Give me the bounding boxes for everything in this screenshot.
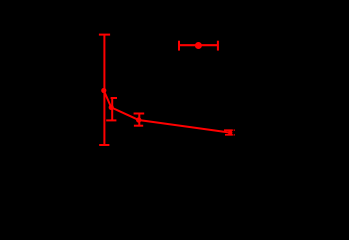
node P2 error bar vertical line (111, 98, 113, 120)
node P2 error bar bottom cap (106, 119, 116, 121)
node P3 error bar vertical line (138, 114, 140, 126)
node P3 error bar bottom cap (134, 125, 143, 127)
node L1 legend horizontal error bar line (179, 44, 218, 46)
node L1 legend left cap (178, 41, 180, 51)
node P2 marker (109, 105, 114, 110)
node P1 error bar top cap (99, 34, 110, 36)
node P4 error bar bottom cap (225, 134, 235, 136)
node P1 error bar bottom cap (99, 144, 109, 146)
node P1 error bar vertical line (103, 35, 105, 145)
node L1 legend right cap (217, 41, 219, 51)
node P4 error bar vertical line (228, 130, 230, 134)
node P2 error bar top cap (111, 97, 117, 99)
wire: black frame edge cutting P4 caps (232, 129, 235, 135)
node P3 error bar top cap (134, 113, 145, 115)
node P1 marker (101, 88, 106, 93)
node P4 error bar top cap (224, 129, 235, 131)
wire: graph connecting polyline P1-P2-P3-P4 (104, 91, 230, 133)
node P3 marker (136, 117, 141, 122)
node P4 marker (228, 130, 232, 134)
node L1 legend marker (195, 42, 202, 49)
